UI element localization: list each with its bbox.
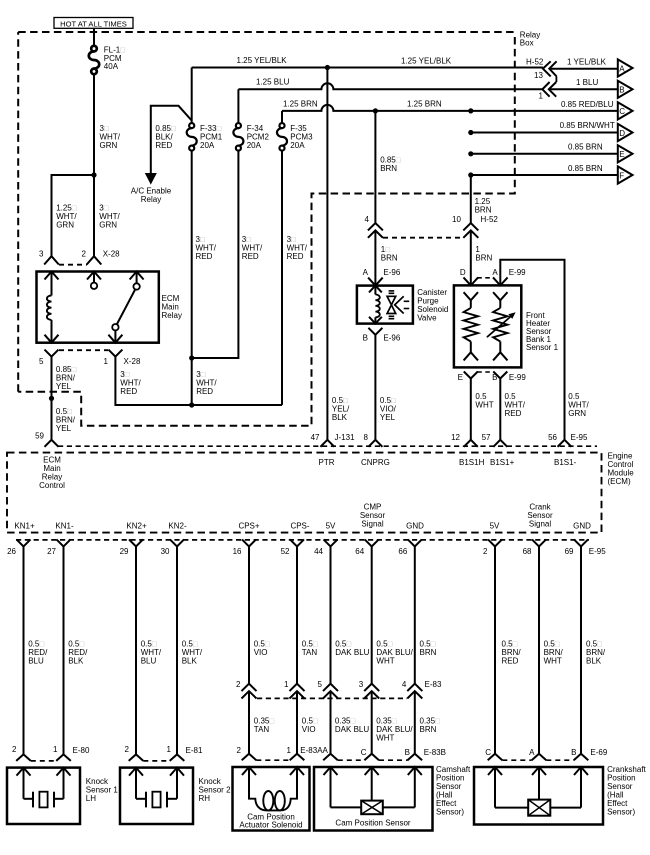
svg-text:57: 57 <box>482 433 491 442</box>
svg-text:E-99: E-99 <box>509 373 526 382</box>
svg-text:F: F <box>619 171 624 180</box>
connector E-99 pin A <box>493 277 508 285</box>
svg-text:GRN: GRN <box>99 220 117 229</box>
svg-text:E: E <box>458 373 463 382</box>
svg-text:H-52: H-52 <box>526 58 544 67</box>
svg-text:66: 66 <box>398 547 407 556</box>
relay terminal arrow (pin 5, coil -) <box>45 335 59 343</box>
cam sensor terminal arrow (5V) <box>324 767 338 807</box>
svg-text:1.25 BRN: 1.25 BRN <box>407 99 442 108</box>
connector E-69 pin B <box>574 754 589 761</box>
crank sensor terminal arrow (5V C) <box>488 767 502 808</box>
wire: 0.5 BRN/YEL to ECM pin 59 <box>51 398 53 439</box>
FL-1 label <box>104 46 125 72</box>
connector link line between H-52 A/B <box>555 76 557 82</box>
connector triangle F <box>618 166 633 183</box>
svg-text:KN1+: KN1+ <box>14 522 35 531</box>
wire: 1.25 BRN drop junction to H-52 pin 10 <box>470 175 472 223</box>
sensor: Crankshaft Position Sensor box <box>474 767 603 825</box>
svg-text:29: 29 <box>120 547 129 556</box>
valve coil to bottom arrow <box>374 317 376 323</box>
connector E-83 pin 2 inline <box>242 684 257 699</box>
wire label 0.5 WHT/BLU <box>141 640 162 666</box>
connector X-28 pin 1 <box>108 350 122 357</box>
connector E-99 mating dashes (bottom) <box>477 371 494 373</box>
svg-text:BRN: BRN <box>420 725 437 734</box>
svg-text:Cam Position Sensor: Cam Position Sensor <box>335 818 410 827</box>
svg-text:YEL: YEL <box>380 413 396 422</box>
knock1 terminal arrow (pin 2) <box>17 768 31 799</box>
heater left bottom terminal <box>464 342 478 361</box>
component label ECM Main Relay <box>162 294 182 320</box>
wire: F-34 feed from BLU corner <box>237 89 239 125</box>
svg-text:BLU: BLU <box>28 657 44 666</box>
connector X-28 pin 2 <box>87 256 102 264</box>
svg-text:0.85 BRN/WHT: 0.85 BRN/WHT <box>560 121 615 130</box>
wire: 0.5 RED/BLU KN1+ <box>23 546 25 754</box>
wire label 3 WHT/RED (F-33 upper) <box>196 235 217 261</box>
svg-text:5V: 5V <box>326 522 336 531</box>
svg-text:GRN: GRN <box>100 141 118 150</box>
wire label 0.5 WHT <box>475 392 493 410</box>
ECM internal label ECM Main Relay Control <box>39 456 65 491</box>
wire label 0.35 DAK BLU/WHT <box>376 717 413 743</box>
wire: 0.5 RED/BLK KN1- <box>63 546 65 754</box>
svg-text:E-69: E-69 <box>590 748 607 757</box>
connector E-99 pin E <box>464 372 478 379</box>
svg-text:WHT: WHT <box>475 401 493 410</box>
wire: 1 BRN to heater sensor pin D <box>470 231 472 286</box>
svg-text:B: B <box>405 748 410 757</box>
wire label 0.85 BLK/RED <box>155 124 176 150</box>
svg-text:20A: 20A <box>200 141 215 150</box>
ECM pin 27 <box>57 539 71 546</box>
svg-text:0.85 BRN: 0.85 BRN <box>568 143 603 152</box>
svg-text:Relay: Relay <box>162 311 182 320</box>
wire label 3 WHT/GRN (pin 2 feed) <box>99 203 120 229</box>
svg-text:Valve: Valve <box>417 314 437 323</box>
wire label 0.5 VIO (lower) <box>302 717 318 735</box>
svg-text:A: A <box>619 64 625 73</box>
knock2 terminal arrow (pin 1) <box>170 768 184 799</box>
wire: YEL/BLK drop to ECM pin 47 (0.5 YEL/BLK) <box>326 68 328 440</box>
relay K: ECM Main Relay box <box>37 272 159 343</box>
svg-text:KN1-: KN1- <box>55 522 74 531</box>
svg-text:Sensor): Sensor) <box>436 808 464 817</box>
wire label 1 BRN (heater) <box>475 245 492 263</box>
actuator terminal arrow (pin 1) <box>290 767 304 799</box>
svg-text:D: D <box>460 268 466 277</box>
wire label 1 BRN (valve) <box>381 245 398 263</box>
knock1 piezo element <box>24 792 64 808</box>
svg-text:B: B <box>363 333 368 342</box>
wire: 1 BRN to canister purge valve pin A <box>374 231 376 286</box>
svg-text:D: D <box>619 129 625 138</box>
ECM pin 57 <box>493 440 507 447</box>
svg-text:56: 56 <box>548 433 557 442</box>
cam sensor terminal arrow (gnd B) <box>408 767 422 807</box>
svg-text:BRN: BRN <box>475 254 492 263</box>
svg-text:Sensor 1: Sensor 1 <box>526 343 559 352</box>
svg-text:E: E <box>619 150 624 159</box>
svg-text:B: B <box>571 748 576 757</box>
connector E-83AA pin 2 <box>242 754 257 761</box>
svg-text:CPS+: CPS+ <box>238 522 259 531</box>
wire segment to lower connector <box>248 691 250 753</box>
ECM pin 56 <box>558 440 572 447</box>
component label Canister Purge Solenoid Valve <box>417 288 448 323</box>
svg-text:10: 10 <box>452 215 461 224</box>
connector H-52 mating dashes <box>383 237 463 239</box>
wire label 0.5 WHT/RED <box>505 392 526 418</box>
connector triangle E <box>618 145 633 162</box>
svg-text:KN2-: KN2- <box>168 522 187 531</box>
ECM pin 52 <box>290 539 304 546</box>
load label A/C Enable Relay <box>131 187 172 204</box>
svg-text:16: 16 <box>233 547 242 556</box>
connector E-83AA mating dashes <box>256 759 289 761</box>
relay terminal arrow (pin 2, fixed contact) <box>87 272 101 289</box>
svg-text:Relay: Relay <box>141 195 161 204</box>
svg-text:Signal: Signal <box>361 520 383 529</box>
relay switch arm <box>117 289 135 324</box>
svg-text:30: 30 <box>161 547 170 556</box>
svg-text:RED: RED <box>155 141 172 150</box>
svg-text:E-96: E-96 <box>383 333 400 342</box>
connector H-52 pin 10 inline <box>463 223 478 238</box>
crank hall element (crossed box) <box>495 800 581 816</box>
svg-text:68: 68 <box>523 547 532 556</box>
wire: F-34 output down, left to junction <box>192 150 239 358</box>
svg-text:BLK: BLK <box>586 657 602 666</box>
connector triangle C <box>618 102 633 119</box>
component label Camshaft Position Sensor (Hall Effect Sensor) <box>436 765 471 817</box>
wire label 0.5 BRN/YEL <box>56 407 76 433</box>
svg-text:1: 1 <box>53 745 58 754</box>
component label Cam Position Actuator Solenoid <box>239 812 302 829</box>
svg-text:1 BLU: 1 BLU <box>576 78 598 87</box>
connector H-52 pin 4 inline <box>368 223 383 238</box>
svg-text:Sensor): Sensor) <box>607 808 635 817</box>
svg-text:CPS-: CPS- <box>290 522 309 531</box>
wire label 0.5 BRN/BLK <box>586 640 606 666</box>
wire label 0.5 VIO <box>254 640 270 658</box>
relay terminal arrow (movable contact feed) <box>130 272 144 290</box>
svg-text:WHT: WHT <box>376 657 394 666</box>
wire label 3 WHT/RED (pin1) <box>120 370 141 396</box>
connector E-83 mating dashes <box>257 697 407 699</box>
ECM pin 44 <box>324 539 338 546</box>
svg-text:RED: RED <box>242 252 259 261</box>
svg-text:BLK: BLK <box>332 413 348 422</box>
wire label 0.35 TAN <box>254 717 275 735</box>
sensor: Knock Sensor 2 RH box <box>120 768 193 824</box>
wire label 0.5 RED/BLU <box>28 640 48 666</box>
relay pin 1 arrow <box>108 330 122 342</box>
wire label 0.5 BRN/WHT <box>544 640 564 666</box>
svg-text:27: 27 <box>47 547 56 556</box>
svg-text:WHT: WHT <box>376 734 394 743</box>
wire: 0.5 BRN/BLK GND <box>580 546 582 753</box>
wire: 0.5 TAN CPS- <box>296 546 298 683</box>
connector E-83AA pin 1 <box>290 754 305 761</box>
svg-text:B: B <box>619 86 624 95</box>
svg-text:DAK BLU: DAK BLU <box>335 648 369 657</box>
svg-text:J-131: J-131 <box>335 433 356 442</box>
svg-text:20A: 20A <box>290 141 305 150</box>
connector E-80 mating dashes <box>31 760 56 762</box>
svg-text:52: 52 <box>281 547 290 556</box>
wire: 1.25 BRN horizontal (F-35 to triangle C) with hop, junctions <box>282 105 618 114</box>
actuator terminal arrow (pin 2) <box>242 767 256 799</box>
svg-text:BLK: BLK <box>68 657 84 666</box>
wire segment to lower connector <box>296 691 298 753</box>
wire: 0.5 BRN/RED 5V <box>494 546 496 753</box>
connector E-83 pin 3 inline <box>364 684 379 699</box>
svg-text:2: 2 <box>483 547 488 556</box>
knock2 terminal arrow (pin 2) <box>129 768 143 799</box>
svg-text:5: 5 <box>318 680 323 689</box>
connector E-83 pin 5 inline <box>323 684 338 699</box>
wire label 0.85 BRN/YEL <box>56 365 77 391</box>
svg-text:VIO: VIO <box>302 725 316 734</box>
wire label 0.5 WHT/GRN <box>568 392 589 418</box>
svg-text:8: 8 <box>364 433 369 442</box>
wire: 1.25 BLU horizontal (F-34 to H-52) with hop over YEL/BLK vertical <box>238 83 542 89</box>
svg-text:26: 26 <box>7 547 16 556</box>
svg-text:X-28: X-28 <box>103 250 120 259</box>
wire label 0.35 DAK BLU <box>335 717 369 735</box>
svg-text:1: 1 <box>284 680 289 689</box>
fuse F-34 label <box>247 124 270 150</box>
svg-text:1.25 YEL/BLK: 1.25 YEL/BLK <box>237 56 288 65</box>
valve terminal arrow top <box>369 286 382 295</box>
connector E-99 pin B <box>493 372 507 379</box>
svg-text:E-81: E-81 <box>186 746 203 755</box>
svg-text:YEL: YEL <box>56 424 72 433</box>
heater sensor right element terminals <box>493 292 507 308</box>
svg-text:RED: RED <box>287 252 304 261</box>
relay box dashed border <box>18 32 515 426</box>
connector E-81 pin 2 <box>129 754 144 761</box>
connector E-99 pin D <box>464 277 479 285</box>
wire label 0.5 DAK BLU/WHT <box>376 640 413 666</box>
wire label 0.85 BRN <box>380 156 401 174</box>
connector E-81 pin 1 <box>170 754 185 761</box>
svg-text:B1S1+: B1S1+ <box>490 458 515 467</box>
wire: 0.5 DAK BLU/WHT CMP <box>371 546 373 683</box>
connector E-96 pin A <box>368 278 383 286</box>
svg-text:BLK: BLK <box>182 657 198 666</box>
ECM pin 69 <box>574 539 588 546</box>
ECM pin 2 <box>488 539 502 546</box>
component label Crankshaft Position Sensor (Hall Effect Sensor) <box>607 765 646 817</box>
valve terminal arrow bottom <box>369 317 382 324</box>
wire: F-33 feed from YEL/BLK corner <box>191 68 193 126</box>
wire: 0.5 BRN/WHT CKP <box>538 546 540 753</box>
svg-text:RH: RH <box>199 794 211 803</box>
wire: F-35 output down to bus corner <box>281 150 283 405</box>
svg-text:E-83: E-83 <box>425 680 442 689</box>
svg-text:B: B <box>492 373 497 382</box>
wire: 0.5 WHT/RED heater B to ECM 57 <box>499 379 501 440</box>
svg-text:4: 4 <box>365 215 370 224</box>
wire: 1.25 YEL/BLK horizontal (F-33 to H-52) with junction <box>192 65 543 70</box>
solenoid: Canister Purge Solenoid Valve box <box>357 286 413 324</box>
svg-text:59: 59 <box>35 432 44 441</box>
cam hall element (crossed box) <box>331 801 415 815</box>
svg-text:13: 13 <box>534 71 543 80</box>
svg-text:3: 3 <box>359 680 364 689</box>
wire: 0.85 BRN to triangle F <box>468 172 618 177</box>
wire label 0.5 BRN/RED <box>502 640 522 666</box>
connector E-81 mating dashes <box>143 760 169 762</box>
wire label 0.5 YEL/BLK <box>332 396 350 422</box>
svg-text:1.25 BRN: 1.25 BRN <box>283 99 318 108</box>
wire label 0.5 RED/BLK <box>68 640 88 666</box>
svg-text:HOT AT ALL TIMES: HOT AT ALL TIMES <box>60 19 127 28</box>
knock2 piezo element <box>136 792 177 808</box>
svg-text:GRN: GRN <box>568 409 586 418</box>
svg-text:RED: RED <box>505 409 522 418</box>
ECM bottom pin-row mating dashes <box>16 539 589 541</box>
wire label 1.25 BRN (drop) <box>475 197 492 215</box>
svg-text:BRN: BRN <box>381 254 398 263</box>
connector E-69 mating dashes <box>502 759 531 761</box>
wire segment to lower connector <box>414 691 416 753</box>
svg-text:2: 2 <box>82 250 87 259</box>
wire: F-33 output down the bus <box>189 150 194 405</box>
svg-text:C: C <box>619 107 625 116</box>
svg-text:BLU: BLU <box>141 657 157 666</box>
connector E-99 mating dashes (top) <box>477 277 494 279</box>
connector X-28 mating dashes (top) <box>59 264 87 266</box>
wire: 0.5 DAK BLU 5V <box>330 546 332 683</box>
ECM top pin-row mating dashes <box>58 445 597 447</box>
svg-text:64: 64 <box>355 547 364 556</box>
connector E-69 pin A <box>532 754 547 761</box>
component label Knock Sensor 2 RH <box>199 777 232 803</box>
svg-text:2: 2 <box>236 680 241 689</box>
svg-text:Actuator Solenoid: Actuator Solenoid <box>239 821 302 830</box>
svg-text:2: 2 <box>12 745 17 754</box>
svg-text:BRN: BRN <box>380 164 397 173</box>
svg-text:A: A <box>492 268 498 277</box>
connector E-80 pin 2 <box>16 754 31 761</box>
svg-text:Box: Box <box>520 39 534 48</box>
fuse F-35 label <box>290 124 313 150</box>
svg-text:Control: Control <box>39 481 65 490</box>
ECM pin 12 <box>464 440 478 447</box>
svg-text:5: 5 <box>39 357 44 366</box>
connector triangle B <box>618 81 633 98</box>
wire: 0.5 BRN GND <box>414 546 416 683</box>
svg-text:A: A <box>363 268 369 277</box>
wire: A/C enable relay branch 0.85 BLK/RED <box>146 106 192 184</box>
component label Engine Control Module (ECM) <box>608 452 635 487</box>
svg-text:4: 4 <box>402 680 407 689</box>
fuse F-33 PCM1 20A <box>187 123 197 151</box>
wire: A resume to triangle A <box>550 68 618 70</box>
svg-text:H-52: H-52 <box>481 215 499 224</box>
wire label 3 WHT/RED (F-35) <box>287 235 308 261</box>
fuse F-33 label <box>200 124 223 150</box>
svg-text:C: C <box>485 748 491 757</box>
connector E-83B pin C <box>364 754 379 761</box>
svg-text:A: A <box>529 748 535 757</box>
svg-text:1: 1 <box>539 92 544 101</box>
svg-text:E-80: E-80 <box>73 746 90 755</box>
ECM pin 8 <box>368 440 382 447</box>
connector triangle D <box>618 124 633 141</box>
connector E-69 pin C <box>488 754 503 761</box>
svg-text:B1S1H: B1S1H <box>459 458 485 467</box>
svg-text:RED: RED <box>196 252 213 261</box>
svg-text:RED: RED <box>502 657 519 666</box>
svg-text:B1S1-: B1S1- <box>554 458 577 467</box>
svg-text:1 YEL/BLK: 1 YEL/BLK <box>567 57 607 66</box>
svg-text:BRN: BRN <box>475 206 492 215</box>
actuator solenoid coil <box>249 791 297 811</box>
svg-text:PTR: PTR <box>319 458 335 467</box>
connector X-28 pin 3 <box>44 256 59 264</box>
ECM box dashed border <box>7 453 602 533</box>
relay coil to bottom arrow <box>51 320 53 343</box>
svg-text:TAN: TAN <box>254 725 270 734</box>
svg-text:44: 44 <box>314 547 323 556</box>
connector E-83B pin B <box>408 754 423 761</box>
svg-text:E-83AA: E-83AA <box>300 746 328 755</box>
svg-text:C: C <box>361 748 367 757</box>
wire: 0.5 VIO CPS+ <box>248 546 250 683</box>
svg-text:0.85 BRN: 0.85 BRN <box>568 164 603 173</box>
connector E-83 pin 1 inline <box>290 684 305 699</box>
wire: 0.5 VIO/YEL valve B to ECM pin 8 <box>374 335 376 440</box>
wire: 0.85 BRN drop junction to H-52 pin 4 <box>374 111 376 223</box>
component label Front Heater Sensor Bank 1 Sensor 1 <box>526 311 559 352</box>
ECM pin 16 <box>242 539 256 546</box>
svg-text:RED: RED <box>120 387 137 396</box>
svg-text:E-83B: E-83B <box>424 748 446 757</box>
wire label 3 WHT/RED (F-34) <box>242 235 263 261</box>
ECM pin 26 <box>17 539 31 546</box>
wire: F-35 feed from BRN corner <box>281 111 283 126</box>
wire: 0.85 BRN to triangle E <box>468 151 618 156</box>
wire label 1.25 WHT/GRN <box>56 203 77 229</box>
solenoid: Cam Position Actuator Solenoid box <box>233 767 310 831</box>
svg-text:TAN: TAN <box>302 648 318 657</box>
svg-text:CNPRG: CNPRG <box>361 458 390 467</box>
wire: 0.5 WHT heater E to ECM 12 <box>470 379 472 440</box>
svg-text:E-95: E-95 <box>589 547 606 556</box>
svg-text:1.25 BLU: 1.25 BLU <box>256 77 290 86</box>
svg-text:3: 3 <box>39 250 44 259</box>
connector E-83 pin 4 inline <box>407 684 422 699</box>
wire label 0.5 WHT/BLK <box>182 640 203 666</box>
wire: 0.5 WHT/BLU KN2+ <box>135 546 137 754</box>
svg-text:WHT: WHT <box>544 657 562 666</box>
svg-text:0.85 RED/BLU: 0.85 RED/BLU <box>561 100 614 109</box>
wire label 0.5 VIO/YEL <box>380 396 397 422</box>
svg-text:KN2+: KN2+ <box>126 522 147 531</box>
svg-text:40A: 40A <box>104 62 119 71</box>
wire: B resume to triangle B <box>550 88 618 90</box>
wire: battery feed into FL-1 <box>93 28 95 46</box>
crank sensor terminal arrow (signal A) <box>532 767 546 800</box>
ECM pin 30 <box>170 539 184 546</box>
svg-text:RED: RED <box>196 387 213 396</box>
svg-text:DAK BLU: DAK BLU <box>335 725 369 734</box>
